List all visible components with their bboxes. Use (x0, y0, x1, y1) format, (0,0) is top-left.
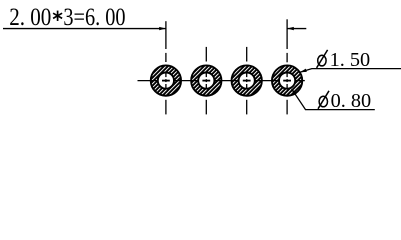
dimension line right stub (287, 28, 306, 30)
extension line at hole 1 (165, 21, 167, 49)
vertical centerline hole 1 (165, 53, 167, 115)
vertical centerline hole 3 (246, 47, 248, 115)
asterisk star in dimension text (53, 11, 62, 21)
hole 1 pad (hatched annulus) (151, 65, 181, 95)
svg-text:3=6. 00: 3=6. 00 (63, 3, 125, 32)
svg-text:1. 50: 1. 50 (330, 49, 371, 71)
extension line at hole 4 (286, 19, 288, 49)
hole 3 pad (hatched annulus) (232, 65, 262, 95)
vertical centerline hole 2 (205, 47, 207, 115)
vertical centerline hole 4 (286, 53, 288, 115)
svg-text:2. 00: 2. 00 (9, 3, 51, 31)
hole 2 pad (hatched annulus) (191, 65, 221, 95)
label dia 1.50 (317, 49, 371, 71)
svg-text:0. 80: 0. 80 (331, 90, 372, 112)
leader line for dia 0.80 (292, 89, 375, 110)
hole 4 pad (hatched annulus) (272, 65, 302, 95)
dimension line (2.00*3=6.00) (3, 28, 166, 30)
horizontal centerline (138, 80, 305, 82)
dimension arrow left (points right) (159, 27, 166, 30)
leader line for dia 1.50 (300, 69, 401, 73)
label dia 0.80 (318, 90, 371, 112)
dimension arrow right (points left) (287, 27, 294, 30)
